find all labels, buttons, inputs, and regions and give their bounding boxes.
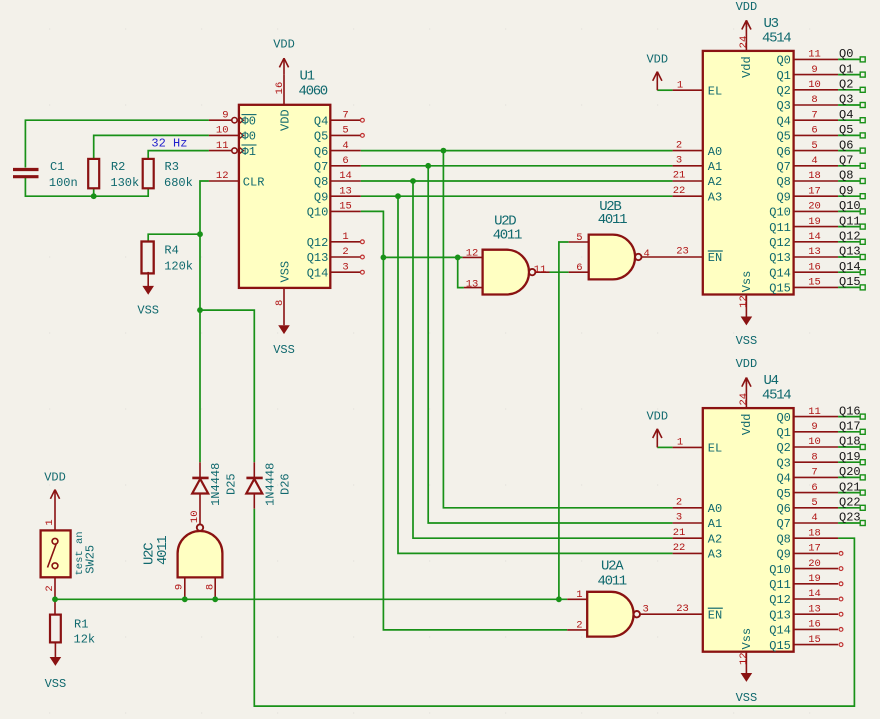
svg-text:Q6: Q6: [776, 145, 790, 159]
U3 pin 17 Q9 output with global label Q9: [794, 195, 839, 197]
wire bottom rail C1-R2-R3: [25, 178, 148, 197]
svg-text:10: 10: [216, 125, 229, 137]
svg-text:21: 21: [673, 527, 686, 539]
svg-text:Q7: Q7: [776, 517, 790, 531]
svg-text:4011: 4011: [155, 536, 171, 565]
junction CLR/R4: [197, 231, 203, 237]
svg-text:Q4: Q4: [776, 114, 790, 128]
svg-text:24: 24: [738, 393, 750, 406]
svg-text:A1: A1: [708, 517, 722, 531]
svg-text:14: 14: [808, 588, 821, 600]
svg-text:5: 5: [811, 140, 817, 152]
U4 pin 22 A3 input: [673, 552, 703, 554]
U4 pin 15 Q15 unconnected: [794, 644, 839, 646]
svg-text:9: 9: [811, 421, 817, 433]
svg-text:16: 16: [808, 619, 821, 631]
svg-text:VSS: VSS: [736, 691, 758, 705]
svg-text:U1: U1: [300, 69, 315, 85]
svg-text:Q4: Q4: [776, 472, 790, 486]
U4 pin 19 Q11 unconnected: [794, 583, 839, 585]
U4 pin 12 Vss bottom: [745, 652, 747, 673]
svg-text:23: 23: [676, 603, 689, 615]
svg-text:20: 20: [808, 201, 821, 213]
U3 pin 7 Q4 output with global label Q4: [794, 119, 839, 121]
U4 pin 17 Q9 unconnected: [794, 552, 839, 554]
U1 pin 11 PHI1-bar input: [209, 150, 232, 152]
svg-text:Q3: Q3: [776, 456, 790, 470]
U1 pin 4 Q6 output: [330, 150, 360, 152]
svg-text:Q15: Q15: [769, 282, 791, 296]
svg-text:12: 12: [738, 295, 750, 308]
svg-text:15: 15: [339, 201, 352, 213]
svg-text:R1: R1: [74, 618, 88, 632]
svg-text:Q12: Q12: [839, 230, 861, 244]
resistor R1: [50, 615, 61, 643]
U2D pin 11 output: [535, 271, 549, 273]
svg-text:24: 24: [738, 36, 750, 49]
svg-text:32 Hz: 32 Hz: [151, 137, 187, 151]
svg-text:15: 15: [808, 634, 821, 646]
U4 pin 3 A1 input: [673, 522, 703, 524]
U1 pin 6 Q7 output: [330, 165, 360, 167]
svg-text:A3: A3: [708, 548, 722, 562]
svg-text:Q7: Q7: [776, 160, 790, 174]
svg-text:4011: 4011: [598, 212, 627, 228]
IC U3 4514 body: [703, 51, 794, 295]
U1 pin 1 Q12 output: [330, 241, 360, 243]
svg-text:21: 21: [673, 170, 686, 182]
svg-text:11: 11: [534, 264, 547, 276]
diode D26 1N4448: [246, 477, 262, 480]
svg-text:6: 6: [576, 262, 582, 274]
svg-text:Q5: Q5: [839, 123, 853, 137]
U2C pin 8 input: [214, 577, 216, 599]
svg-text:Q13: Q13: [769, 608, 791, 622]
svg-text:4514: 4514: [762, 388, 791, 404]
wire CLR net branch to D26 cathode: [200, 310, 254, 462]
svg-text:1: 1: [44, 519, 56, 525]
svg-text:13: 13: [808, 603, 821, 615]
svg-text:11: 11: [808, 406, 821, 418]
svg-text:Q6: Q6: [839, 138, 853, 152]
svg-text:13: 13: [339, 185, 352, 197]
wire R2 bottom: [93, 188, 95, 196]
U4 pin 7 Q4 output with global label Q20: [794, 476, 839, 478]
svg-text:A1: A1: [708, 160, 722, 174]
wire Q6 branch down to U4 A0: [443, 151, 672, 508]
U3 pin 12 Vss bottom: [745, 295, 747, 317]
svg-text:5: 5: [576, 232, 582, 244]
svg-text:Q12: Q12: [769, 593, 791, 607]
svg-text:Q8: Q8: [839, 169, 853, 183]
svg-text:9: 9: [811, 64, 817, 76]
svg-text:5: 5: [811, 497, 817, 509]
wire R4 top to CLR net: [148, 234, 200, 242]
svg-text:22: 22: [673, 542, 686, 554]
svg-text:14: 14: [339, 170, 352, 182]
svg-text:Q12: Q12: [307, 236, 329, 250]
svg-text:Q19: Q19: [839, 450, 861, 464]
U3 pin 6 Q5 output with global label Q5: [794, 134, 839, 136]
svg-text:Q3: Q3: [776, 99, 790, 113]
wire Q8 branch down to U4 A2: [413, 181, 673, 538]
wire Q10 net branch to U2D pin 12: [383, 256, 462, 258]
svg-text:Q0: Q0: [776, 54, 790, 68]
U1 pin 2 Q13 output: [330, 256, 360, 258]
svg-text:13: 13: [466, 279, 479, 291]
svg-text:17: 17: [808, 185, 821, 197]
svg-text:A2: A2: [708, 532, 722, 546]
resistor R2: [88, 159, 99, 188]
U3 pin 10 Q2 output with global label Q2: [794, 89, 839, 91]
svg-text:18: 18: [808, 527, 821, 539]
svg-text:Q6: Q6: [776, 502, 790, 516]
svg-text:1: 1: [342, 231, 348, 243]
svg-text:Vss: Vss: [740, 271, 754, 293]
wire branch to U2D pin 13: [458, 257, 464, 287]
U1 pin 5 Q5 output: [330, 134, 360, 136]
junction CLR/D26 branch: [197, 307, 203, 313]
U3 pin 15 Q15 output with global label Q15: [794, 286, 839, 288]
wire CLR net: U1 pin 12 down to diodes: [200, 181, 209, 462]
gate U2C 4011 NAND rotated up: [178, 531, 223, 577]
U1 pin 14 Q8 output: [330, 180, 360, 182]
svg-text:Q14: Q14: [769, 624, 791, 638]
svg-text:20: 20: [808, 558, 821, 570]
svg-text:CLR: CLR: [243, 175, 265, 189]
svg-text:VDD: VDD: [273, 38, 295, 52]
U3 pin 18 Q8 output with global label Q8: [794, 180, 839, 182]
svg-text:Q14: Q14: [839, 260, 861, 274]
svg-text:VSS: VSS: [45, 677, 67, 691]
junction Q6 branch: [441, 148, 447, 154]
wire U2B pin 5 down to switch net: [559, 242, 569, 599]
U3 pin 21 A2 input: [673, 180, 703, 182]
junction U2C pin 8: [212, 596, 218, 602]
U3 pin 9 Q1 output with global label Q1: [794, 74, 839, 76]
svg-text:VSS: VSS: [736, 334, 758, 348]
U3 pin 22 A3 input: [673, 195, 703, 197]
U4 pin 16 Q14 unconnected: [794, 628, 839, 630]
svg-text:1N4448: 1N4448: [209, 463, 223, 506]
svg-text:4: 4: [342, 140, 348, 152]
U3 pin 4 Q7 output with global label Q7: [794, 165, 839, 167]
power VDD symbol: [54, 490, 56, 496]
U2B pin 5 input: [569, 241, 589, 243]
U4 pin 18 Q8 output wired to bottom rail: [794, 537, 839, 539]
svg-text:U2A: U2A: [601, 559, 624, 575]
svg-text:C1: C1: [50, 160, 64, 174]
svg-text:Q2: Q2: [839, 78, 853, 92]
svg-text:VDD: VDD: [44, 470, 66, 484]
svg-text:Q1: Q1: [839, 62, 853, 76]
svg-text:Q2: Q2: [776, 84, 790, 98]
U4 pin 6 Q5 output with global label Q21: [794, 492, 839, 494]
svg-text:Q20: Q20: [839, 465, 861, 479]
svg-text:A2: A2: [708, 175, 722, 189]
U2B pin 6 input: [569, 271, 589, 273]
svg-text:Φ0: Φ0: [242, 115, 256, 129]
R4 bottom wire to VSS: [147, 272, 149, 287]
svg-text:10: 10: [189, 510, 201, 523]
svg-text:8: 8: [811, 94, 817, 106]
wire R2 top to U1 pin 10: [94, 135, 209, 159]
svg-text:1N4448: 1N4448: [263, 463, 277, 506]
U1 pin 8 VSS bottom: [283, 288, 285, 325]
svg-text:Vdd: Vdd: [740, 413, 754, 435]
U3 pin 3 A1 input: [673, 165, 703, 167]
wire U1 Q8 to U3 A2: [361, 180, 673, 182]
power VSS symbol: [745, 316, 747, 318]
svg-text:Q0: Q0: [839, 47, 853, 61]
SW25 pin 1 to VDD: [54, 496, 56, 530]
junction Q7 branch: [425, 163, 431, 169]
svg-text:1: 1: [576, 589, 582, 601]
wire Q7 branch down to U4 A1: [428, 166, 672, 523]
U4 pin 1 EL input with VDD: [673, 446, 703, 448]
switch SW25 test an: [41, 530, 71, 577]
svg-text:Q6: Q6: [314, 145, 328, 159]
U2B pin 4 output to U3 EN: [642, 256, 703, 258]
svg-text:VDD: VDD: [646, 410, 668, 424]
IC U4 4514 body: [703, 408, 794, 652]
svg-text:Q14: Q14: [307, 266, 329, 280]
svg-text:Q4: Q4: [839, 108, 853, 122]
svg-text:VDD: VDD: [736, 357, 758, 371]
svg-text:A0: A0: [708, 502, 722, 516]
svg-text:Q4: Q4: [314, 114, 328, 128]
svg-text:3: 3: [676, 512, 682, 524]
svg-text:Q5: Q5: [314, 130, 328, 144]
svg-text:A0: A0: [708, 145, 722, 159]
svg-text:SW25: SW25: [84, 545, 98, 574]
svg-text:9: 9: [222, 109, 228, 121]
svg-text:Q11: Q11: [839, 214, 861, 228]
U4 pin 4 Q7 output with global label Q23: [794, 522, 839, 524]
U4 pin 8 Q3 output with global label Q19: [794, 461, 839, 463]
svg-text:6: 6: [811, 482, 817, 494]
svg-text:2: 2: [342, 246, 348, 258]
power VSS symbol: [147, 285, 149, 287]
U1 pin 13 Q9 output: [330, 195, 360, 197]
U4 pin 21 A2 input: [673, 537, 703, 539]
U3 pin 11 Q0 output with global label Q0: [794, 58, 839, 60]
U4 pin 13 Q13 unconnected: [794, 613, 839, 615]
svg-text:13: 13: [808, 246, 821, 258]
svg-text:2: 2: [44, 585, 56, 591]
junction Q10 / U2D pin12 wire: [381, 255, 387, 261]
svg-text:Q11: Q11: [769, 578, 791, 592]
svg-text:Φ1: Φ1: [242, 145, 256, 159]
svg-text:Q8: Q8: [776, 175, 790, 189]
wire U3 EL to VDD: [657, 89, 672, 91]
svg-text:Q2: Q2: [776, 441, 790, 455]
U1 pin 15 Q10 output: [330, 210, 360, 212]
svg-text:12: 12: [466, 248, 479, 260]
U4 pin 24 Vdd top: [745, 378, 747, 408]
svg-text:22: 22: [673, 185, 686, 197]
svg-text:4011: 4011: [493, 228, 522, 244]
svg-text:R3: R3: [165, 160, 179, 174]
junction SW25/R1: [52, 596, 58, 602]
svg-text:18: 18: [808, 170, 821, 182]
svg-text:19: 19: [808, 216, 821, 228]
U2A pin 1 input: [567, 598, 587, 600]
U3 pin 19 Q11 output with global label Q11: [794, 226, 839, 228]
power VDD symbol: [283, 58, 285, 75]
gate U2B 4011 NAND: [589, 235, 635, 280]
wire Q9 branch down to U4 A3: [398, 196, 673, 553]
svg-text:Q21: Q21: [839, 480, 861, 494]
svg-text:Q1: Q1: [776, 69, 790, 83]
resistor R3: [143, 159, 154, 188]
svg-text:R2: R2: [111, 160, 125, 174]
svg-text:Q16: Q16: [839, 404, 861, 418]
svg-text:11: 11: [216, 140, 229, 152]
svg-text:Q7: Q7: [314, 160, 328, 174]
svg-text:Q11: Q11: [769, 221, 791, 235]
U4 pin 14 Q12 unconnected: [794, 598, 839, 600]
svg-text:11: 11: [808, 49, 821, 61]
power VSS symbol: [283, 324, 285, 326]
svg-text:Q8: Q8: [314, 175, 328, 189]
svg-text:EN: EN: [708, 251, 722, 265]
R1 bottom to VSS: [54, 642, 56, 657]
U1 pin 10 PHI0 output: [209, 134, 239, 136]
svg-text:3: 3: [643, 604, 649, 616]
svg-text:VSS: VSS: [273, 343, 295, 357]
svg-text:Q23: Q23: [839, 511, 861, 525]
svg-text:Q5: Q5: [776, 130, 790, 144]
U4 pin 20 Q10 unconnected: [794, 568, 839, 570]
svg-text:16: 16: [808, 261, 821, 273]
svg-text:Q10: Q10: [769, 206, 791, 220]
svg-text:VSS: VSS: [137, 304, 159, 318]
svg-text:Q9: Q9: [776, 548, 790, 562]
gate U2A 4011 NAND: [587, 592, 633, 637]
svg-text:Q13: Q13: [307, 251, 329, 265]
svg-text:Φ0: Φ0: [242, 130, 256, 144]
resistor R4: [142, 242, 154, 274]
power VDD symbol: [656, 72, 658, 91]
svg-text:7: 7: [811, 467, 817, 479]
svg-text:12: 12: [216, 170, 229, 182]
svg-text:130k: 130k: [110, 176, 139, 190]
svg-text:Q18: Q18: [839, 435, 861, 449]
wire SW25 / R1 / U2C inputs to U2A pin 1: [55, 598, 567, 600]
svg-text:4060: 4060: [299, 83, 328, 99]
U2A pin 3 output to U4 EN: [640, 613, 703, 615]
gate U2D 4011 NAND: [483, 250, 529, 295]
svg-text:4: 4: [644, 248, 650, 260]
svg-text:Q13: Q13: [839, 245, 861, 259]
U1 pin 3 Q14 output: [330, 271, 360, 273]
U2C pin 9 input: [184, 577, 186, 599]
junction Q8 branch: [410, 178, 416, 184]
U2A pin 2 input: [567, 629, 587, 631]
svg-text:15: 15: [808, 277, 821, 289]
power VDD symbol: [745, 378, 747, 385]
svg-text:Q9: Q9: [776, 190, 790, 204]
U3 pin 1 EL input with VDD: [673, 89, 703, 91]
svg-text:2: 2: [676, 139, 682, 151]
svg-text:Q9: Q9: [314, 190, 328, 204]
U3 pin 20 Q10 output with global label Q10: [794, 210, 839, 212]
svg-text:Q12: Q12: [769, 236, 791, 250]
svg-text:Q5: Q5: [776, 487, 790, 501]
U1 pin 7 Q4 output: [330, 119, 360, 121]
power VSS symbol: [745, 672, 747, 674]
svg-text:17: 17: [808, 543, 821, 555]
svg-text:4514: 4514: [762, 30, 791, 46]
svg-text:Q3: Q3: [839, 93, 853, 107]
U1 pin 12 CLR input: [209, 180, 239, 182]
power VDD symbol: [745, 20, 747, 27]
svg-text:R4: R4: [164, 244, 178, 258]
svg-text:12k: 12k: [74, 632, 96, 646]
svg-text:EL: EL: [708, 442, 722, 456]
svg-text:Q10: Q10: [307, 206, 329, 220]
SW25 pin 2 down to junction: [54, 577, 56, 614]
svg-text:VDD: VDD: [646, 53, 668, 67]
svg-text:8: 8: [811, 451, 817, 463]
svg-text:VDD: VDD: [279, 109, 293, 131]
U1 pin 9 PHI0-bar input: [209, 119, 232, 121]
U4 pin 10 Q2 output with global label Q18: [794, 446, 839, 448]
power VSS symbol: [54, 656, 56, 658]
wire D26 anode to bottom rail to U4 Q8: [254, 509, 854, 706]
wire U1 Q7 to U3 A1: [361, 165, 673, 167]
svg-text:8: 8: [205, 584, 217, 590]
wire U1 Q6 to U3 A0: [361, 150, 673, 152]
svg-text:680k: 680k: [164, 176, 193, 190]
svg-text:Q1: Q1: [776, 426, 790, 440]
svg-text:7: 7: [811, 109, 817, 121]
wire C1 top to U1 pin 9: [25, 120, 209, 167]
svg-text:VSS: VSS: [279, 261, 293, 283]
svg-text:3: 3: [676, 155, 682, 167]
U4 pin 11 Q0 output with global label Q16: [794, 416, 839, 418]
svg-text:7: 7: [342, 109, 348, 121]
svg-text:D26: D26: [278, 473, 292, 495]
svg-text:6: 6: [811, 125, 817, 137]
IC U1 4060 body: [239, 105, 330, 288]
svg-text:A3: A3: [708, 190, 722, 204]
svg-text:EN: EN: [708, 608, 722, 622]
U3 pin 13 Q13 output with global label Q13: [794, 256, 839, 258]
power VDD symbol: [656, 429, 658, 448]
svg-text:Q9: Q9: [839, 184, 853, 198]
svg-text:Q15: Q15: [769, 639, 791, 653]
svg-text:23: 23: [676, 246, 689, 258]
svg-text:12: 12: [738, 652, 750, 665]
junction U2C pin 9: [182, 596, 188, 602]
svg-text:Vss: Vss: [740, 628, 754, 650]
svg-text:D25: D25: [225, 473, 239, 495]
U3 pin 8 Q3 output with global label Q3: [794, 104, 839, 106]
U4 pin 5 Q6 output with global label Q22: [794, 507, 839, 509]
wire U1 Q9 to U3 A3: [361, 195, 673, 197]
junction U2B pin5 line / switch net: [556, 596, 562, 602]
capacitor C1: [13, 168, 39, 171]
wire U2D output to U2B pin 6: [550, 271, 569, 273]
svg-text:Q17: Q17: [839, 420, 861, 434]
svg-text:Q10: Q10: [839, 199, 861, 213]
svg-text:1: 1: [677, 437, 683, 449]
svg-text:10: 10: [808, 436, 821, 448]
wire U1 Q10 down to U2A pin 2: [361, 211, 568, 630]
svg-text:Q8: Q8: [776, 532, 790, 546]
